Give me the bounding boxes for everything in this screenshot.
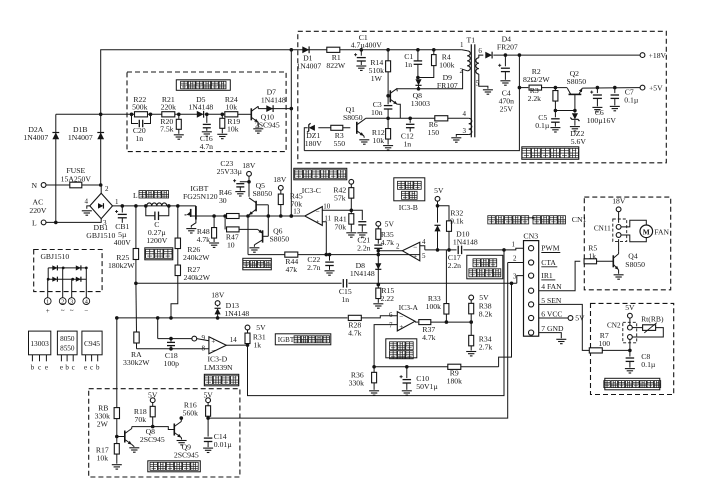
terminal N (41, 183, 46, 188)
svg-text:82Ω/2W: 82Ω/2W (523, 75, 550, 84)
svg-text:2: 2 (513, 255, 517, 263)
T1 pin 3 (456, 135, 469, 137)
resistor R47 10 (224, 216, 226, 229)
resistor R20 7.5k to ground (177, 113, 181, 117)
label box: power compare circuit (386, 339, 417, 358)
IC3-D output (226, 344, 247, 346)
svg-text:b: b (96, 363, 100, 371)
svg-text:CTA: CTA (541, 258, 556, 267)
capacitor C1b 1n snubber (416, 48, 420, 52)
node: D1B top junction (99, 113, 103, 117)
svg-text:L: L (133, 191, 138, 200)
resistor R46 30 (223, 214, 227, 218)
resistor R34 2.7k to ground (470, 322, 472, 335)
svg-text:1: 1 (512, 240, 516, 248)
svg-text:4.7k: 4.7k (422, 333, 436, 342)
resistor R27 240k2W (177, 249, 179, 265)
svg-text:9: 9 (202, 334, 206, 342)
svg-text:N: N (32, 181, 38, 190)
resistor R41 70k (350, 209, 354, 213)
svg-text:1W: 1W (371, 74, 383, 83)
wire B: pin 8 input from RA (137, 348, 209, 350)
resistor R15 2.2 (377, 283, 381, 287)
terminal L (41, 220, 46, 225)
svg-text:6: 6 (389, 311, 393, 319)
svg-text:100k: 100k (426, 302, 442, 311)
resistor R1 822W (327, 47, 340, 52)
label box: main loop (145, 248, 173, 260)
svg-text:4 FAN: 4 FAN (541, 282, 562, 291)
dashed box: GBJ1510 pinout (34, 250, 102, 292)
svg-text:GBJ1510: GBJ1510 (86, 231, 115, 240)
svg-text:10k: 10k (97, 453, 109, 462)
svg-text:7.5k: 7.5k (160, 125, 174, 134)
capacitor C22 2.7n (328, 253, 332, 257)
svg-text:1n: 1n (135, 134, 143, 143)
svg-text:5V: 5V (148, 390, 158, 399)
svg-text:220k: 220k (161, 103, 177, 112)
label box: drive circuit (243, 258, 271, 270)
svg-text:18V: 18V (242, 161, 256, 170)
resistor R26 240k2W (176, 204, 180, 208)
wire: +18V rail (518, 53, 522, 57)
svg-text:PWM: PWM (541, 244, 559, 253)
svg-text:1N4148: 1N4148 (188, 103, 213, 112)
svg-text:−: − (211, 346, 215, 354)
terminal +5V (640, 85, 645, 90)
svg-text:~: ~ (61, 307, 65, 315)
svg-text:IC3-A: IC3-A (399, 303, 419, 312)
fuse FUSE 15A250V (46, 184, 101, 186)
svg-text:c: c (72, 363, 75, 371)
svg-text:18V: 18V (211, 290, 225, 299)
svg-text:T1: T1 (467, 35, 476, 44)
package box C945 (82, 331, 102, 355)
svg-text:−: − (315, 207, 319, 216)
svg-text:FAN: FAN (654, 227, 669, 236)
svg-text:3: 3 (513, 273, 517, 281)
wire: comparator reference line (374, 366, 499, 368)
resistor R2 82n/2W (519, 87, 528, 89)
resistor R3 550 (318, 127, 350, 129)
svg-text:822W: 822W (326, 61, 346, 70)
capacitor C15 1n in series (342, 279, 344, 288)
svg-text:10k: 10k (373, 136, 385, 145)
wire: L to bridge pin 3 (54, 221, 58, 225)
svg-text:30: 30 (219, 196, 227, 205)
wire: R27 to peak-detect wire W3 (171, 276, 178, 318)
IC3-C pin 10 wire to R42/R41 node (322, 209, 351, 211)
svg-text:4.7n: 4.7n (200, 142, 214, 151)
wire: Q8b collector row (132, 427, 175, 430)
svg-text:~: ~ (70, 307, 74, 315)
capacitor C8 0.1u (629, 350, 631, 356)
svg-text:240k2W: 240k2W (183, 253, 210, 262)
CN3 pin2 stub (508, 262, 524, 264)
svg-text:4.7k: 4.7k (197, 235, 211, 244)
svg-text:1N4007: 1N4007 (296, 61, 321, 70)
IC3-B output stub to C21 node (378, 250, 402, 252)
wire: CN2 to R7 node (629, 339, 631, 350)
svg-text:13003: 13003 (30, 339, 49, 348)
resistor R31 1k pullup (245, 325, 250, 330)
svg-text:2SC945: 2SC945 (255, 120, 280, 129)
resistor R33 100k to sawtooth line (445, 320, 449, 324)
svg-text:S8050: S8050 (343, 113, 363, 122)
svg-text:2: 2 (396, 242, 400, 250)
svg-text:13003: 13003 (411, 99, 430, 108)
capacitor C16 4.7n to ground (205, 113, 209, 117)
svg-text:S8050: S8050 (252, 189, 272, 198)
resistor R14 510k 1W (386, 48, 390, 52)
T1 pin 6 (479, 55, 484, 58)
svg-text:4: 4 (85, 299, 88, 306)
IC3-B pin 4 wire (420, 246, 425, 250)
resistor R36 330k (372, 365, 376, 369)
wire: detect chain (132, 113, 198, 115)
diode D7 1N4148 (258, 108, 291, 110)
svg-text:1N4148: 1N4148 (453, 237, 478, 246)
svg-text:4: 4 (85, 197, 89, 205)
svg-text:100k: 100k (439, 60, 455, 69)
svg-text:IC3-C: IC3-C (302, 186, 321, 195)
wire: AC top rail to aux supply (101, 50, 462, 115)
capacitor C4 470n 25V (504, 53, 508, 57)
GBJ1510 pins 1-4 (47, 279, 49, 297)
wire A: pin 9 input (158, 338, 192, 340)
capacitor C23 25V33u (247, 180, 251, 184)
svg-text:500k: 500k (132, 103, 148, 112)
dashed box: mains voltage detect circuit (127, 72, 286, 152)
resistor R22 500k with C20 1n parallel (130, 113, 134, 117)
svg-text:0.1µ: 0.1µ (535, 121, 550, 130)
wire: DZ1 return rail to 18V node (304, 55, 519, 151)
svg-text:Rt(RB): Rt(RB) (641, 314, 664, 323)
wire: drive node down to W1 (247, 216, 249, 255)
svg-text:550: 550 (334, 139, 346, 148)
diode D1B 1N4007 (100, 114, 102, 185)
svg-text:4: 4 (422, 238, 426, 246)
bridge rectifier DB1 GBJ1510 (90, 193, 113, 219)
svg-text:13: 13 (293, 208, 301, 216)
svg-text:IGBT: IGBT (278, 336, 295, 344)
capacitor C7 0.1u (613, 86, 617, 90)
diode D5 1N4148 (197, 111, 204, 118)
svg-text:GBJ1510: GBJ1510 (40, 252, 69, 261)
terminal +18V (640, 53, 645, 58)
resistor R9 180k (448, 364, 461, 369)
riser: PWM to IC3-D output loop (248, 250, 505, 396)
label: mainboard connector to key board CN1 (488, 216, 496, 224)
svg-text:1k: 1k (253, 340, 261, 349)
svg-text:18V: 18V (273, 175, 287, 184)
resistor R25 180k2W (134, 204, 138, 208)
resistor R28 4.7k (348, 315, 361, 320)
svg-text:IR1: IR1 (541, 271, 553, 280)
resistor R42 57k (349, 179, 354, 184)
svg-text:57k: 57k (334, 193, 346, 202)
ground at bridge pin 4 (87, 206, 90, 209)
package box 13003 (29, 331, 51, 355)
wire: T1 pin2 to Q8 collector (397, 69, 463, 89)
svg-text:1k: 1k (588, 251, 596, 260)
T1 pin 2 (463, 69, 468, 71)
svg-text:180k2W: 180k2W (108, 261, 135, 270)
dashed box: pot bottom temperature detect circuit (591, 303, 674, 394)
wire: sync riser from D7 to rail (290, 50, 292, 109)
svg-text:1: 1 (46, 299, 49, 306)
capacitor C1 4.7u400V to ground (360, 48, 364, 52)
label box: IGBT peak voltage detect (275, 334, 331, 345)
IC3-A output and R37 4.7k (415, 321, 418, 323)
svg-text:15A250V: 15A250V (61, 174, 92, 183)
riser to sync input (156, 316, 160, 320)
resistor R44 47k (285, 252, 298, 257)
svg-text:330k: 330k (349, 378, 365, 387)
svg-text:14: 14 (230, 336, 238, 344)
svg-text:5: 5 (422, 252, 426, 260)
resistor RB 330k 2W (115, 316, 119, 320)
transistor Q6 S8050 (PNP) (262, 230, 264, 242)
svg-text:+: + (46, 307, 50, 315)
svg-text:50V1µ: 50V1µ (416, 382, 438, 391)
capacitor C17 2.2n in series (457, 246, 459, 255)
transistor Q10 2SC945 (238, 113, 252, 115)
wire: mains detect rail (56, 113, 132, 115)
node: C21/D8/W1/IC3-B out (377, 253, 381, 257)
svg-text:+5V: +5V (649, 83, 663, 92)
label box: power setting circuit (294, 168, 347, 180)
svg-text:2.22: 2.22 (381, 294, 395, 303)
svg-text:1n: 1n (404, 60, 412, 69)
diode D1 1N4007 (302, 46, 309, 53)
svg-text:FR207: FR207 (497, 42, 518, 51)
capacitor C6 100u16V (596, 86, 600, 90)
svg-text:e: e (45, 363, 48, 371)
svg-text:0.01µ: 0.01µ (214, 440, 232, 449)
svg-text:10k: 10k (227, 125, 239, 134)
svg-text:11: 11 (324, 214, 331, 222)
svg-text:CN11: CN11 (594, 224, 611, 232)
svg-text:2SC945: 2SC945 (174, 450, 199, 459)
svg-text:100p: 100p (164, 359, 180, 368)
transistor Q9 2SC945 (173, 424, 175, 436)
label box: pan detect circuit (148, 461, 201, 472)
svg-text:10n: 10n (371, 108, 383, 117)
svg-text:c: c (38, 363, 41, 371)
svg-text:400V: 400V (114, 238, 132, 247)
svg-text:7: 7 (389, 322, 393, 330)
dashed box: pan detect circuit (89, 389, 240, 477)
wire: Q8 base from R14 (388, 95, 390, 98)
svg-text:8: 8 (202, 344, 206, 352)
wire R2 to Q2 (542, 87, 568, 89)
svg-text:1N4148: 1N4148 (224, 309, 249, 318)
comparator IC3-B (402, 242, 420, 260)
CN3 pin6 VCC wire to 5V (539, 317, 568, 319)
svg-text:1n: 1n (341, 295, 349, 304)
svg-text:25V: 25V (500, 104, 514, 113)
svg-text:9.1k: 9.1k (450, 216, 464, 225)
svg-text:4.7µ400V: 4.7µ400V (351, 41, 383, 50)
resistor R32 9.1k (438, 206, 450, 221)
svg-text:1N4007: 1N4007 (23, 133, 48, 142)
svg-text:5.6V: 5.6V (571, 137, 587, 146)
svg-text:2: 2 (460, 67, 464, 75)
resistor R19 10k to ground (221, 113, 225, 117)
label box: auxiliary switching power supply (522, 147, 579, 160)
resistor R3b 2.2k (554, 86, 558, 90)
resistor R17 10k (115, 435, 119, 439)
svg-text:6: 6 (478, 47, 482, 55)
IC3-C pin 11 wire down to W1 (322, 222, 326, 255)
svg-text:1n: 1n (403, 139, 411, 148)
resistor R24 10k (225, 112, 238, 117)
svg-text:1N4148: 1N4148 (261, 95, 286, 104)
capacitor C10 50V1u (405, 365, 409, 369)
resistor R38 8.2k with 5V (469, 295, 474, 300)
svg-text:10: 10 (323, 202, 331, 210)
GBJ1510 internal bridge diagram (48, 267, 86, 269)
svg-text:47k: 47k (286, 265, 298, 274)
svg-text:M: M (643, 227, 650, 236)
resistor R12 10k to ground (387, 118, 389, 129)
svg-text:220V: 220V (29, 206, 47, 215)
transistor Q8 13003 switch (389, 90, 391, 102)
svg-text:1: 1 (460, 41, 464, 49)
node: sync riser joins W1 (290, 214, 294, 218)
svg-text:0.1µ: 0.1µ (641, 360, 656, 369)
svg-text:7 GND: 7 GND (541, 324, 564, 333)
capacitor C12 1n (408, 117, 412, 121)
node: R25/RA to feedback wire W2 (134, 282, 138, 286)
capacitor C11 filter (351, 210, 362, 220)
svg-text:e: e (60, 363, 63, 371)
svg-text:3: 3 (70, 299, 73, 306)
IC3-A pin7 wire (374, 325, 397, 367)
svg-text:+: + (399, 323, 403, 331)
svg-text:330k2W: 330k2W (123, 358, 150, 367)
comparator IC3-A (397, 312, 415, 331)
svg-text:+18V: +18V (649, 51, 667, 60)
fan motor M (621, 220, 646, 227)
wire W4: sawtooth / PWM line (425, 249, 457, 251)
diode D8 1N4148 (375, 263, 381, 269)
capacitor C 0.27u 1200V (resonant, parallel loop) (144, 204, 148, 208)
capacitor C18 100p (169, 337, 173, 341)
svg-text:5V: 5V (256, 323, 266, 332)
capacitor C5 0.1u (554, 109, 558, 113)
dashed box: fan circuit (584, 197, 670, 290)
svg-text:2: 2 (105, 185, 109, 193)
svg-text:2: 2 (61, 299, 64, 306)
transistor Q4 S8050 (618, 239, 620, 252)
wire: low rail Q1 collector (366, 117, 435, 119)
svg-text:180k: 180k (447, 376, 463, 385)
transistor Q5 S8050 (255, 201, 257, 212)
svg-text:8.2k: 8.2k (479, 309, 493, 318)
svg-text:4.7k: 4.7k (348, 328, 362, 337)
svg-text:560k: 560k (183, 408, 199, 417)
transistor Q8b 2SC945 (117, 436, 125, 438)
dashed box: auxiliary switching power supply (298, 31, 667, 163)
svg-text:5V: 5V (434, 186, 444, 195)
capacitor C14 0.01u (207, 418, 209, 437)
resistor R5 1k (584, 259, 597, 264)
resistor RA 330k2W (134, 332, 139, 343)
resistor R19 10k vertical (221, 114, 223, 118)
svg-text:5: 5 (476, 79, 480, 87)
diode D4 FR207 (485, 52, 492, 59)
wire W2: divider node to CN3 pin3 (with C15) (136, 282, 342, 284)
resistor R21 220k (162, 112, 175, 117)
package box 8050/8550 (57, 331, 77, 355)
svg-text:1200V: 1200V (146, 236, 167, 245)
label box: sawtooth forming capacitor (467, 255, 503, 278)
svg-text:70k: 70k (135, 415, 147, 424)
svg-text:3: 3 (463, 127, 467, 135)
svg-text:1: 1 (115, 198, 119, 206)
CN3 pin3 stub / IR1 from W2 (517, 276, 524, 284)
svg-text:2SC945: 2SC945 (140, 435, 165, 444)
svg-text:70k: 70k (335, 222, 347, 231)
svg-text:+: + (413, 252, 417, 261)
svg-text:100: 100 (599, 339, 611, 348)
svg-text:5V: 5V (203, 390, 213, 399)
svg-text:10: 10 (227, 240, 235, 249)
diode D9 FR107 (417, 77, 420, 80)
resistor R4 100k snubber (432, 48, 436, 52)
wire: IC3-C output line (248, 215, 305, 217)
label box: sawtooth circuit (394, 178, 425, 201)
zener DZ1 180V (309, 125, 315, 131)
svg-text:2.7n: 2.7n (307, 263, 321, 272)
svg-text:2.2k: 2.2k (528, 94, 542, 103)
svg-text:2W: 2W (97, 419, 109, 428)
CN3 pin7 GND wire (539, 333, 562, 339)
svg-text:5V: 5V (385, 219, 395, 228)
resistor R6 150 (435, 116, 448, 121)
zener DZ2 5.6V (574, 111, 576, 113)
svg-text:L: L (32, 218, 37, 227)
diode D2A 1N4007 (55, 114, 57, 222)
wire: main HV line (113, 205, 196, 207)
capacitor C21 2.2n (374, 244, 382, 246)
svg-text:4: 4 (463, 110, 467, 118)
riser: CTA loop from pan-detect (208, 263, 508, 419)
svg-text:2.2n: 2.2n (357, 243, 371, 252)
capacitor CB1 5u 400V (121, 204, 125, 208)
svg-text:2.7k: 2.7k (479, 342, 493, 351)
T1 pin 5 (479, 74, 488, 89)
svg-text:CN2: CN2 (607, 321, 621, 329)
T1 pin 1 (462, 50, 468, 51)
capacitor C3 10n (387, 96, 389, 105)
svg-text:−: − (399, 313, 403, 321)
svg-text:+: + (315, 217, 319, 226)
node R12/C3 (386, 117, 390, 121)
svg-text:5V: 5V (625, 303, 635, 312)
svg-text:18V: 18V (612, 197, 626, 206)
svg-text:2.2n: 2.2n (448, 261, 462, 270)
svg-text:8550: 8550 (60, 344, 75, 352)
label box: pot bottom temperature detect circuit (605, 378, 660, 390)
svg-text:e: e (84, 363, 87, 371)
svg-text:5 SEN: 5 SEN (541, 296, 562, 305)
svg-text:10k: 10k (226, 103, 238, 112)
riser: R9 feedback to W2 (499, 283, 512, 367)
svg-text:1N4148: 1N4148 (350, 269, 375, 278)
